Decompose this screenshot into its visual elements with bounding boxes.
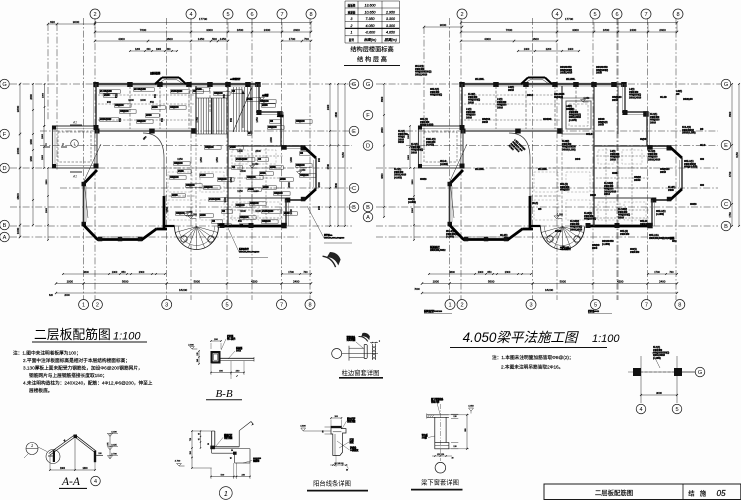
svg-text:20: 20 [346, 470, 348, 472]
svg-text:B: B [724, 224, 728, 230]
svg-text:3.300: 3.300 [386, 24, 395, 28]
svg-text:1000: 1000 [156, 49, 162, 51]
svg-text:2KL/2WL: 2KL/2WL [475, 168, 485, 171]
svg-text:2KL/2WL: 2KL/2WL [475, 78, 485, 81]
svg-text:G: G [366, 82, 370, 88]
svg-text:3800: 3800 [16, 105, 20, 112]
svg-text:4000: 4000 [118, 37, 125, 41]
svg-text:2: 2 [350, 24, 353, 28]
svg-text:结 构 层 高: 结 构 层 高 [357, 56, 387, 64]
svg-text:B2Φ8: B2Φ8 [152, 106, 158, 109]
svg-text:1800: 1800 [603, 28, 610, 32]
svg-text:17700: 17700 [565, 17, 574, 21]
svg-text:95: 95 [199, 433, 201, 435]
svg-text:二层板配筋图: 二层板配筋图 [34, 327, 111, 342]
svg-text:4.050梁平法施工图: 4.050梁平法施工图 [463, 330, 580, 345]
svg-text:30: 30 [452, 458, 454, 460]
svg-text:(-0.600): (-0.600) [408, 200, 416, 204]
svg-text:2Φ16: 2Φ16 [610, 157, 616, 161]
svg-text:90: 90 [323, 430, 325, 432]
svg-text:2Φ18,3Φ18: 2Φ18,3Φ18 [648, 157, 661, 161]
svg-text:5: 5 [594, 303, 597, 309]
svg-text:4000: 4000 [484, 37, 491, 41]
svg-text:层号: 层号 [349, 38, 355, 42]
svg-text:3600: 3600 [532, 37, 539, 41]
svg-text:Φ8@200: Φ8@200 [115, 104, 124, 107]
svg-text:Φ8@2: Φ8@2 [566, 107, 574, 111]
svg-text:1800: 1800 [30, 156, 33, 162]
svg-text:2: 2 [93, 12, 96, 18]
svg-text:18200: 18200 [179, 288, 188, 292]
svg-text:2Φ18: 2Φ18 [482, 120, 488, 124]
svg-text:Φ8@200: Φ8@200 [170, 176, 179, 179]
svg-text:1: 1 [448, 303, 451, 309]
svg-text:A1: A1 [72, 175, 77, 179]
svg-text:4: 4 [189, 12, 192, 18]
svg-text:1800: 1800 [42, 154, 44, 160]
detail window-under-beam [411, 397, 475, 490]
svg-text:1700: 1700 [288, 271, 294, 274]
svg-text:(-0.600): (-0.600) [394, 175, 402, 179]
svg-text:4.400: 4.400 [111, 431, 117, 433]
svg-text:1400: 1400 [524, 48, 530, 51]
svg-text:3.300: 3.300 [386, 17, 395, 21]
svg-text:8: 8 [678, 303, 681, 309]
svg-text:5000: 5000 [194, 280, 201, 284]
svg-text:4700: 4700 [729, 171, 732, 177]
svg-text:2Φ20: 2Φ20 [468, 100, 474, 104]
svg-text:ΦΦ8: ΦΦ8 [612, 171, 618, 175]
svg-text:2.本图未注明吊筋皆取2Φ16。: 2.本图未注明吊筋皆取2Φ16。 [501, 364, 563, 371]
svg-text:F: F [366, 113, 370, 119]
svg-text:2400: 2400 [270, 137, 273, 143]
svg-text:6: 6 [615, 12, 618, 18]
svg-text:B1Φ8: B1Φ8 [178, 170, 184, 173]
svg-text:B3Φ8: B3Φ8 [280, 178, 286, 181]
partial beam plan at axis G [628, 346, 705, 414]
svg-text:2Φ20: 2Φ20 [596, 71, 602, 75]
svg-text:4200: 4200 [251, 280, 258, 284]
detail B-B [188, 334, 254, 400]
svg-text:B3Φ8@200: B3Φ8@200 [100, 118, 112, 121]
svg-text:Φ8@100(2): Φ8@100(2) [430, 93, 442, 97]
svg-text:1750: 1750 [196, 117, 199, 123]
svg-text:2: 2 [460, 12, 463, 18]
detail 1 [175, 422, 262, 500]
svg-text:1600: 1600 [60, 468, 66, 470]
svg-text:1250: 1250 [177, 158, 183, 161]
svg-text:2KL/2WL: 2KL/2WL [566, 78, 576, 81]
svg-text:1450: 1450 [198, 37, 205, 41]
svg-text:Φ8@200: Φ8@200 [120, 110, 129, 113]
svg-text:2: 2 [96, 303, 99, 309]
svg-text:1350: 1350 [216, 157, 219, 163]
svg-text:18200: 18200 [545, 288, 554, 292]
svg-text:850: 850 [161, 117, 164, 122]
svg-text:2400: 2400 [327, 104, 330, 110]
svg-text:G: G [352, 82, 356, 88]
svg-text:2Φ18: 2Φ18 [660, 170, 666, 174]
svg-text:4800: 4800 [16, 193, 20, 200]
svg-text:ΦL(1): ΦL(1) [532, 201, 538, 205]
svg-text:E: E [352, 129, 356, 135]
svg-text:B: B [352, 205, 356, 211]
svg-text:5: 5 [675, 407, 678, 413]
svg-text:梁下窗套详图: 梁下窗套详图 [421, 478, 459, 487]
svg-text:1700: 1700 [289, 37, 296, 41]
svg-text:4: 4 [94, 479, 97, 485]
svg-text:9150: 9150 [342, 152, 345, 158]
svg-text:-1.050: -1.050 [556, 213, 563, 216]
svg-text:D: D [2, 166, 6, 172]
left floor plan [10, 18, 355, 300]
svg-text:4.050: 4.050 [468, 406, 474, 408]
svg-text:150: 150 [98, 453, 101, 455]
svg-text:1:100: 1:100 [113, 331, 141, 343]
svg-text:1450: 1450 [256, 117, 259, 123]
svg-text:Φ8@200: Φ8@200 [205, 146, 214, 149]
svg-text:2Φ18: 2Φ18 [612, 98, 618, 102]
svg-text:1000: 1000 [112, 271, 118, 274]
svg-text:900: 900 [318, 157, 321, 162]
svg-text:E: E [724, 143, 728, 149]
svg-text:B1Φ8: B1Φ8 [230, 146, 236, 149]
svg-text:1450: 1450 [220, 37, 227, 41]
svg-text:7000: 7000 [414, 288, 420, 291]
svg-text:2600: 2600 [318, 182, 321, 188]
svg-text:240X450: 240X450 [630, 250, 640, 254]
svg-text:4700: 4700 [327, 163, 330, 169]
svg-text:ΦKL5: ΦKL5 [586, 132, 593, 136]
svg-text:500: 500 [212, 37, 217, 41]
svg-text:1400: 1400 [568, 48, 574, 51]
svg-text:2Φ20,Φ8: 2Φ20,Φ8 [683, 97, 693, 101]
svg-text:7: 7 [280, 12, 283, 18]
svg-text:700: 700 [304, 37, 309, 41]
svg-text:7600: 7600 [506, 28, 513, 32]
svg-text:850: 850 [119, 117, 122, 122]
svg-text:850: 850 [150, 101, 155, 104]
svg-text:700: 700 [303, 271, 308, 274]
svg-text:C: C [352, 186, 356, 192]
svg-text:620: 620 [49, 294, 54, 297]
svg-text:4200: 4200 [617, 280, 624, 284]
svg-text:B1Φ8@200: B1Φ8@200 [236, 158, 248, 161]
svg-text:3600: 3600 [166, 37, 173, 41]
svg-text:2Φ16: 2Φ16 [466, 115, 472, 119]
svg-text:(-1.050): (-1.050) [446, 235, 454, 239]
svg-text:2Φ18: 2Φ18 [411, 150, 417, 154]
svg-text:B-B: B-B [215, 388, 232, 400]
svg-text:G: G [698, 370, 702, 376]
svg-text:2000: 2000 [64, 294, 70, 297]
svg-text:Φ8@200: Φ8@200 [300, 174, 309, 177]
svg-text:2900: 2900 [412, 207, 414, 213]
svg-text:Φ8@200: Φ8@200 [262, 220, 271, 223]
svg-text:B3Φ8: B3Φ8 [260, 172, 266, 175]
svg-text:G: G [724, 82, 728, 88]
svg-text:(-1.050): (-1.050) [656, 212, 664, 216]
svg-text:85: 85 [231, 457, 233, 459]
svg-text:120 120: 120 120 [437, 454, 445, 456]
svg-text:D: D [366, 144, 370, 150]
svg-text:850: 850 [223, 93, 226, 98]
svg-text:13.600: 13.600 [365, 3, 376, 7]
svg-text:7: 7 [645, 303, 648, 309]
svg-text:850: 850 [115, 93, 118, 98]
svg-text:2Φ16: 2Φ16 [508, 88, 514, 92]
svg-text:结: 结 [688, 489, 695, 498]
svg-text:2KL/2WL: 2KL/2WL [538, 168, 548, 171]
svg-text:标高(m): 标高(m) [364, 37, 377, 42]
svg-text:Φ8@200: Φ8@200 [204, 186, 213, 189]
svg-text:A: A [3, 235, 7, 241]
svg-text:2Φ18: 2Φ18 [598, 123, 604, 127]
svg-text:Φ8@(-0.600): Φ8@(-0.600) [420, 123, 434, 127]
svg-text:1000: 1000 [128, 99, 134, 102]
svg-text:2800: 2800 [412, 179, 414, 185]
svg-text:Φ8@200: Φ8@200 [268, 126, 277, 129]
svg-text:Φ2Φ0Φ: Φ2Φ0Φ [543, 117, 552, 121]
svg-text:2Φ16: 2Φ16 [590, 193, 596, 197]
svg-text:2.900: 2.900 [188, 345, 194, 347]
svg-text:1200: 1200 [135, 49, 141, 51]
svg-text:900: 900 [107, 101, 112, 104]
detail A-A [24, 431, 118, 488]
svg-text:1000: 1000 [433, 280, 440, 284]
svg-text:Φ8@200: Φ8@200 [236, 204, 245, 207]
svg-text:1350: 1350 [200, 157, 203, 163]
svg-text:B1Φ8: B1Φ8 [196, 88, 202, 91]
svg-text:坡屋面: 坡屋面 [348, 10, 356, 14]
svg-text:1: 1 [224, 489, 228, 498]
svg-text:F: F [3, 132, 7, 138]
svg-text:2Φ20,3Φ18: 2Φ20,3Φ18 [560, 71, 573, 75]
svg-text:B: B [3, 223, 7, 229]
svg-text:二层板配筋图: 二层板配筋图 [595, 488, 633, 497]
svg-text:Φ8@200: Φ8@200 [247, 176, 256, 179]
svg-text:4.650: 4.650 [386, 31, 395, 35]
svg-text:1000: 1000 [290, 209, 293, 215]
svg-text:结构层楼面标高: 结构层楼面标高 [350, 46, 393, 54]
svg-text:(-0.600): (-0.600) [440, 162, 448, 166]
svg-text:7600: 7600 [140, 28, 147, 32]
svg-text:2600: 2600 [381, 127, 384, 133]
svg-text:Φ8@200: Φ8@200 [218, 178, 227, 181]
svg-text:1000: 1000 [67, 280, 74, 284]
svg-text:2Φ18,3Φ18: 2Φ18,3Φ18 [570, 227, 583, 231]
svg-text:1800: 1800 [408, 133, 410, 139]
svg-text:4800: 4800 [381, 173, 384, 179]
svg-text:B: B [366, 205, 370, 211]
svg-text:1250: 1250 [237, 190, 243, 193]
svg-text:3000: 3000 [572, 28, 579, 32]
svg-text:4: 4 [555, 12, 558, 18]
svg-text:Φ8@200: Φ8@200 [260, 100, 269, 103]
svg-text:3800: 3800 [335, 182, 338, 188]
svg-text:1000: 1000 [140, 99, 146, 102]
svg-text:1800: 1800 [42, 133, 44, 139]
svg-text:2400: 2400 [630, 28, 637, 32]
svg-text:(-1.050): (-1.050) [602, 242, 610, 246]
svg-text:2.700: 2.700 [111, 454, 117, 456]
svg-text:1750: 1750 [729, 212, 732, 218]
svg-text:850: 850 [154, 93, 157, 98]
svg-text:2600: 2600 [255, 150, 261, 153]
svg-text:2800: 2800 [46, 179, 48, 185]
svg-text:4800: 4800 [335, 111, 338, 117]
svg-text:B1Φ8: B1Φ8 [200, 174, 206, 177]
svg-text:10.650: 10.650 [365, 10, 376, 14]
svg-text:240XΦ: 240XΦ [640, 222, 648, 226]
svg-text:2Φ22,3Φ18: 2Φ22,3Φ18 [415, 72, 428, 76]
svg-text:2Φ16(-1.050): 2Φ16(-1.050) [682, 131, 696, 135]
svg-text:8: 8 [676, 12, 679, 18]
svg-text:2600: 2600 [240, 170, 246, 173]
svg-text:5: 5 [593, 12, 596, 18]
svg-text:1000: 1000 [478, 271, 484, 274]
svg-text:Φ8@200: Φ8@200 [214, 92, 223, 95]
svg-text:850: 850 [238, 220, 243, 223]
svg-text:层高(m): 层高(m) [384, 37, 397, 42]
svg-text:2Φ14: 2Φ14 [527, 93, 533, 97]
level table [344, 1, 400, 66]
svg-text:8: 8 [308, 303, 311, 309]
svg-text:B1 Φ8@200: B1 Φ8@200 [100, 90, 112, 93]
svg-text:4600: 4600 [449, 271, 455, 274]
svg-text:975: 975 [108, 442, 110, 445]
svg-text:2Φ0Φ: 2Φ0Φ [634, 178, 641, 182]
svg-text:(-1.070): (-1.070) [569, 119, 577, 122]
svg-text:Φ8@200: Φ8@200 [137, 120, 146, 123]
svg-text:200X200,4Φ12,Φ6@200: 200X200,4Φ12,Φ6@200 [239, 250, 260, 253]
svg-text:1800: 1800 [237, 28, 244, 32]
svg-text:1:100: 1:100 [592, 333, 620, 345]
svg-text:(-0.600): (-0.600) [426, 143, 434, 147]
svg-text:3000: 3000 [73, 20, 80, 24]
svg-text:ΦΦ16: ΦΦ16 [420, 177, 427, 181]
svg-text:Φ8@200: Φ8@200 [170, 106, 179, 109]
svg-text:Φ16Φ: Φ16Φ [555, 229, 562, 233]
svg-text:1: 1 [74, 142, 76, 146]
svg-text:ΦL4Φ: ΦL4Φ [660, 95, 668, 99]
svg-text:5000: 5000 [560, 280, 567, 284]
svg-text:3.130厚板上面未配受力钢筋处，加设Φ6@200钢筋网片，: 3.130厚板上面未配受力钢筋处，加设Φ6@200钢筋网片， [23, 365, 143, 372]
svg-text:Φ8@100: Φ8@100 [560, 188, 570, 192]
svg-text:6: 6 [250, 12, 253, 18]
svg-text:B1Φ8@200: B1Φ8@200 [262, 210, 274, 213]
right floor plan [376, 18, 721, 300]
svg-text:120: 120 [453, 416, 456, 418]
svg-text:Φ8@200: Φ8@200 [186, 184, 195, 187]
svg-text:3: 3 [351, 17, 353, 21]
svg-text:17700: 17700 [199, 17, 208, 21]
svg-text:Φ8@(-0.600): Φ8@(-0.600) [684, 165, 698, 169]
svg-text:30: 30 [208, 443, 210, 445]
svg-text:7: 7 [280, 303, 283, 309]
svg-text:850: 850 [487, 271, 492, 274]
svg-text:Φ8@200: Φ8@200 [174, 162, 183, 165]
svg-text:3000: 3000 [656, 391, 662, 395]
svg-text:2.700: 2.700 [175, 461, 181, 463]
svg-text:200X200,4Φ12: 200X200,4Φ12 [430, 248, 446, 252]
svg-text:2Φ18: 2Φ18 [618, 215, 624, 219]
svg-text:Φ8@200: Φ8@200 [296, 120, 305, 123]
svg-text:200X200,4Φ12,Φ6@200: 200X200,4Φ12,Φ6@200 [324, 236, 345, 239]
svg-text:1: 1 [31, 443, 33, 448]
svg-text:2400: 2400 [293, 280, 300, 284]
svg-text:7: 7 [644, 12, 647, 18]
svg-text:钢筋网片与上层钢筋搭接长度取150；: 钢筋网片与上层钢筋搭接长度取150； [29, 372, 107, 379]
svg-text:5600: 5600 [488, 280, 495, 284]
svg-text:1: 1 [351, 31, 353, 35]
svg-text:B2Φ8: B2Φ8 [270, 166, 276, 169]
svg-text:725: 725 [190, 438, 192, 441]
svg-text:4: 4 [639, 407, 642, 413]
svg-text:3Φ18: 3Φ18 [398, 140, 404, 144]
svg-text:B2Φ8: B2Φ8 [200, 214, 206, 217]
svg-text:2Φ16,3Φ16: 2Φ16,3Φ16 [629, 95, 642, 99]
svg-text:8: 8 [309, 12, 312, 18]
svg-text:240: 240 [197, 359, 199, 362]
svg-text:(-1.050): (-1.050) [653, 357, 661, 360]
svg-text:5: 5 [226, 12, 229, 18]
svg-text:2.平面中注洋板面标高是相对于本层结构楼面标高；: 2.平面中注洋板面标高是相对于本层结构楼面标高； [23, 357, 130, 364]
svg-text:1120: 1120 [253, 190, 259, 193]
detail window-by-column [332, 331, 383, 378]
svg-text:-1.050: -1.050 [299, 170, 306, 172]
svg-text:1400: 1400 [290, 157, 293, 163]
svg-text:700: 700 [669, 271, 674, 274]
svg-text:2900: 2900 [46, 207, 48, 213]
svg-text:-1.050: -1.050 [186, 212, 193, 214]
svg-text:620: 620 [50, 20, 55, 24]
svg-text:3: 3 [529, 303, 532, 309]
svg-text:2200: 2200 [546, 48, 552, 51]
svg-text:3000: 3000 [440, 23, 447, 27]
svg-text:2.950: 2.950 [385, 10, 395, 14]
svg-text:B1Φ8: B1Φ8 [247, 98, 253, 101]
svg-text:1000: 1000 [240, 210, 246, 213]
svg-text:Φ8@200: Φ8@200 [274, 192, 283, 195]
svg-text:120: 120 [453, 446, 456, 448]
svg-text:2400: 2400 [659, 280, 666, 284]
svg-text:2400: 2400 [264, 28, 271, 32]
svg-text:4600: 4600 [83, 271, 89, 274]
svg-text:Φ8@200: Φ8@200 [250, 202, 259, 205]
svg-text:850: 850 [230, 117, 233, 122]
svg-text:9150: 9150 [736, 152, 739, 158]
svg-text:4800: 4800 [729, 111, 732, 117]
svg-text:B2Φ8: B2Φ8 [262, 104, 268, 107]
svg-text:3800: 3800 [381, 96, 384, 102]
svg-text:4.050: 4.050 [366, 24, 375, 28]
svg-text:5: 5 [225, 303, 228, 309]
svg-text:05: 05 [199, 438, 201, 440]
svg-text:A: A [366, 215, 370, 221]
svg-text:2Φ16: 2Φ16 [497, 105, 503, 109]
svg-text:C: C [724, 202, 728, 208]
svg-text:1600: 1600 [82, 468, 88, 470]
svg-text:1700: 1700 [654, 271, 660, 274]
svg-text:B3Φ8: B3Φ8 [172, 194, 178, 197]
svg-text:-0.600: -0.600 [365, 31, 375, 35]
svg-text:A-A: A-A [61, 476, 81, 488]
svg-text:5600: 5600 [122, 280, 129, 284]
svg-text:ΦΦ18: ΦΦ18 [690, 202, 697, 206]
svg-text:B1Φ8: B1Φ8 [104, 94, 110, 97]
svg-text:ΦL4(1): ΦL4(1) [500, 233, 508, 237]
